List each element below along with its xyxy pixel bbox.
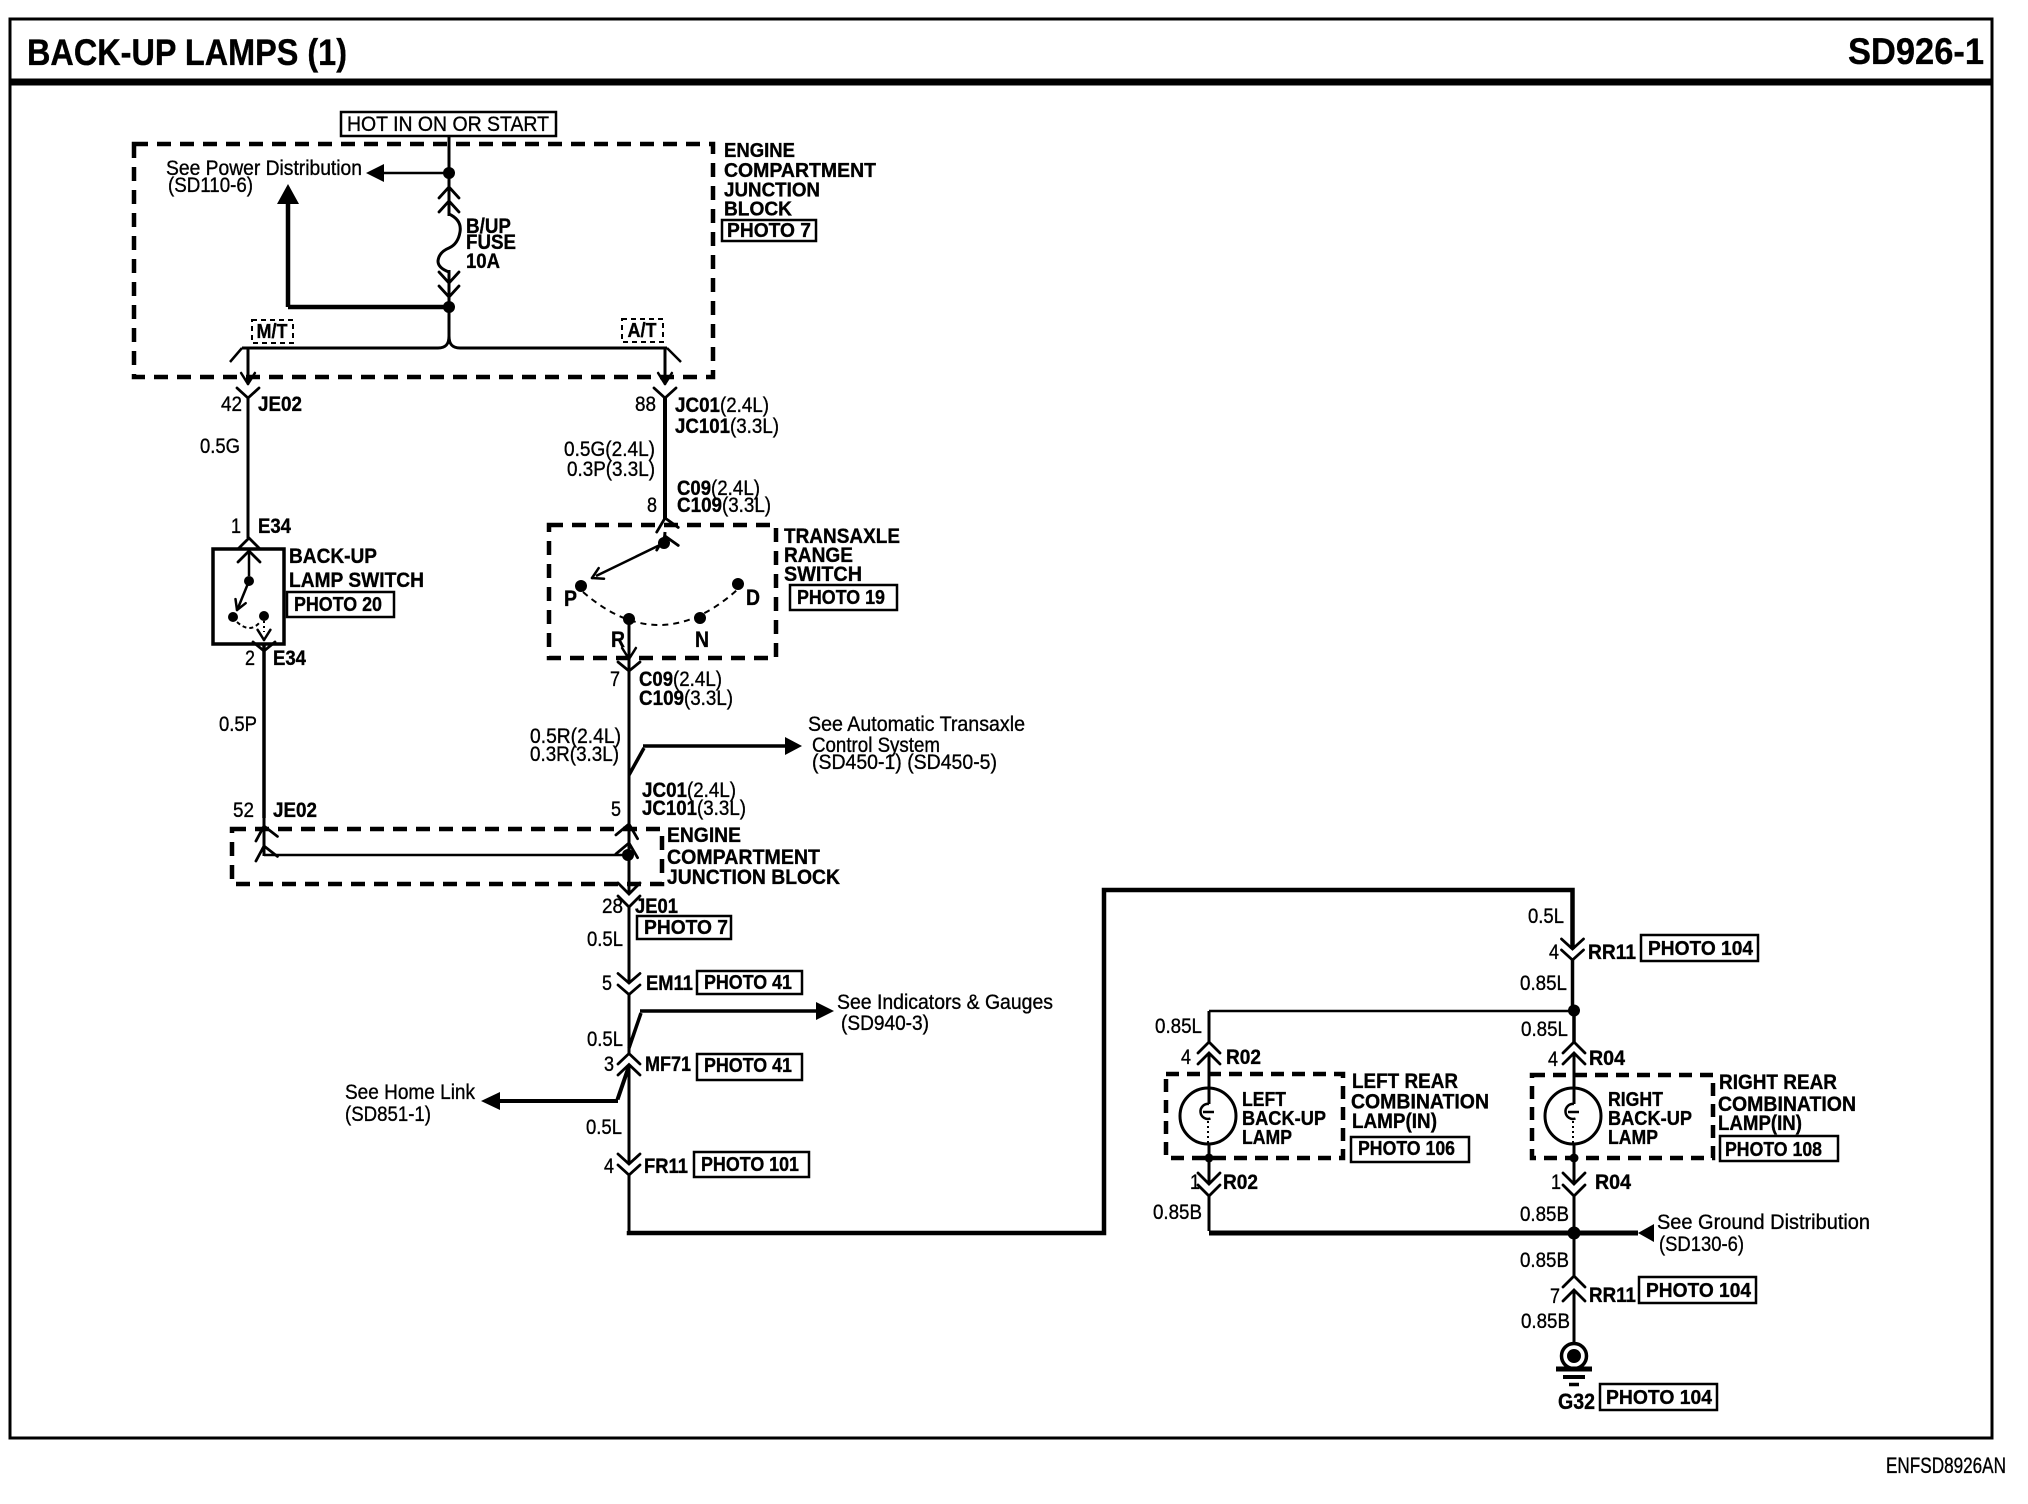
svg-text:See Automatic Transaxle: See Automatic Transaxle <box>808 713 1025 736</box>
svg-text:D: D <box>746 585 760 610</box>
svg-text:0.85L: 0.85L <box>1521 1018 1568 1041</box>
svg-text:M/T: M/T <box>257 321 288 343</box>
svg-text:BACK-UP LAMPS (1): BACK-UP LAMPS (1) <box>27 32 347 73</box>
svg-text:0.85B: 0.85B <box>1521 1310 1570 1333</box>
svg-text:BLOCK: BLOCK <box>724 199 793 221</box>
svg-text:52: 52 <box>233 799 254 822</box>
svg-text:JC101(3.3L): JC101(3.3L) <box>675 415 779 438</box>
svg-text:LAMP(IN): LAMP(IN) <box>1352 1110 1437 1133</box>
svg-text:HOT IN ON OR START: HOT IN ON OR START <box>347 113 549 136</box>
svg-text:PHOTO 20: PHOTO 20 <box>294 594 382 616</box>
svg-text:2: 2 <box>245 647 255 670</box>
svg-text:(SD851-1): (SD851-1) <box>345 1103 431 1126</box>
svg-text:42: 42 <box>221 393 242 416</box>
svg-text:4: 4 <box>1549 941 1559 964</box>
svg-text:G32: G32 <box>1558 1389 1595 1414</box>
svg-text:JUNCTION BLOCK: JUNCTION BLOCK <box>667 866 840 889</box>
svg-text:See Indicators & Gauges: See Indicators & Gauges <box>837 991 1053 1014</box>
svg-text:JE02: JE02 <box>258 393 302 416</box>
svg-text:PHOTO 104: PHOTO 104 <box>1648 938 1754 960</box>
svg-text:PHOTO 108: PHOTO 108 <box>1725 1139 1822 1161</box>
svg-text:PHOTO 104: PHOTO 104 <box>1606 1387 1713 1409</box>
svg-text:RR11: RR11 <box>1588 941 1636 964</box>
svg-text:0.85L: 0.85L <box>1520 972 1567 995</box>
svg-text:88: 88 <box>635 393 656 416</box>
svg-text:LAMP: LAMP <box>1608 1127 1658 1149</box>
svg-text:A/T: A/T <box>628 320 657 342</box>
svg-text:N: N <box>695 627 709 652</box>
svg-text:JE01: JE01 <box>635 895 678 918</box>
svg-text:R02: R02 <box>1223 1171 1258 1194</box>
svg-text:5: 5 <box>611 798 621 821</box>
svg-text:ENFSD8926AN: ENFSD8926AN <box>1886 1453 2006 1478</box>
svg-text:4: 4 <box>1548 1048 1558 1071</box>
svg-text:See Home Link: See Home Link <box>345 1081 475 1104</box>
svg-text:ENGINE: ENGINE <box>667 824 741 847</box>
svg-text:(SD940-3): (SD940-3) <box>841 1012 929 1035</box>
svg-text:JC101(3.3L): JC101(3.3L) <box>642 797 746 820</box>
svg-text:0.5L: 0.5L <box>587 928 623 951</box>
svg-text:LAMP(IN): LAMP(IN) <box>1718 1112 1802 1135</box>
svg-text:10A: 10A <box>466 250 500 273</box>
svg-text:0.5P: 0.5P <box>219 713 257 736</box>
svg-text:PHOTO 7: PHOTO 7 <box>727 220 811 242</box>
svg-text:(SD110-6): (SD110-6) <box>168 174 253 197</box>
svg-text:5: 5 <box>602 972 612 995</box>
svg-text:PHOTO 106: PHOTO 106 <box>1358 1138 1455 1160</box>
svg-text:0.85B: 0.85B <box>1153 1201 1202 1224</box>
svg-text:PHOTO 41: PHOTO 41 <box>704 1055 792 1077</box>
svg-text:JC01(2.4L): JC01(2.4L) <box>675 394 769 417</box>
svg-text:0.3R(3.3L): 0.3R(3.3L) <box>530 743 619 766</box>
svg-text:0.85B: 0.85B <box>1520 1203 1569 1226</box>
svg-text:LAMP: LAMP <box>1242 1127 1292 1149</box>
svg-text:3: 3 <box>604 1053 614 1076</box>
svg-text:MF71: MF71 <box>645 1053 691 1076</box>
svg-text:8: 8 <box>647 494 657 517</box>
svg-text:1: 1 <box>1551 1171 1561 1194</box>
svg-text:0.5L: 0.5L <box>587 1028 623 1051</box>
svg-text:SWITCH: SWITCH <box>784 563 862 586</box>
svg-text:(SD130-6): (SD130-6) <box>1659 1233 1744 1256</box>
svg-text:0.5G: 0.5G <box>200 435 240 458</box>
svg-text:PHOTO 7: PHOTO 7 <box>644 917 728 939</box>
svg-text:R04: R04 <box>1589 1047 1625 1070</box>
svg-text:BACK-UP: BACK-UP <box>289 545 377 568</box>
svg-text:FR11: FR11 <box>644 1155 688 1178</box>
svg-text:SD926-1: SD926-1 <box>1848 31 1984 72</box>
svg-text:PHOTO 19: PHOTO 19 <box>797 587 885 609</box>
svg-text:C109(3.3L): C109(3.3L) <box>677 494 771 517</box>
svg-text:PHOTO 41: PHOTO 41 <box>704 972 792 994</box>
svg-text:7: 7 <box>610 668 620 691</box>
svg-text:4: 4 <box>1181 1046 1191 1069</box>
svg-text:C109(3.3L): C109(3.3L) <box>639 687 733 710</box>
svg-text:E34: E34 <box>258 515 291 538</box>
svg-text:(SD450-1) (SD450-5): (SD450-1) (SD450-5) <box>812 751 997 774</box>
svg-text:0.3P(3.3L): 0.3P(3.3L) <box>567 458 655 481</box>
svg-text:RIGHT REAR: RIGHT REAR <box>1719 1071 1837 1094</box>
svg-text:LAMP SWITCH: LAMP SWITCH <box>289 569 424 592</box>
svg-text:E34: E34 <box>273 647 306 670</box>
svg-text:JE02: JE02 <box>273 799 317 822</box>
svg-text:ENGINE: ENGINE <box>724 140 795 162</box>
svg-text:PHOTO 101: PHOTO 101 <box>701 1154 799 1176</box>
svg-text:7: 7 <box>1550 1285 1560 1308</box>
svg-text:0.85L: 0.85L <box>1155 1015 1202 1038</box>
svg-text:0.5L: 0.5L <box>586 1116 622 1139</box>
svg-text:P: P <box>564 586 577 611</box>
svg-text:R02: R02 <box>1226 1046 1261 1069</box>
svg-text:0.85B: 0.85B <box>1520 1249 1569 1272</box>
svg-text:PHOTO 104: PHOTO 104 <box>1646 1280 1752 1302</box>
svg-text:1: 1 <box>231 515 241 538</box>
svg-text:RR11: RR11 <box>1589 1284 1636 1307</box>
svg-text:EM11: EM11 <box>646 972 693 995</box>
svg-text:4: 4 <box>604 1155 614 1178</box>
svg-text:0.5L: 0.5L <box>1528 905 1564 928</box>
svg-text:R04: R04 <box>1595 1171 1631 1194</box>
svg-text:See Ground Distribution: See Ground Distribution <box>1657 1211 1870 1234</box>
